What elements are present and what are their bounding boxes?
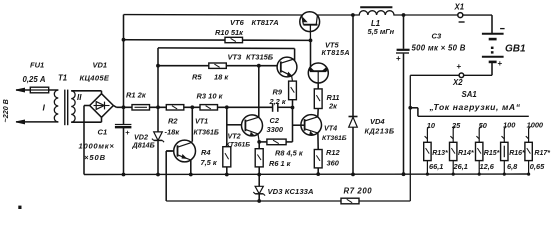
- svg-text:R10 51к: R10 51к: [215, 28, 244, 37]
- svg-text:0,25 А: 0,25 А: [23, 75, 46, 84]
- svg-text:КД213Б: КД213Б: [365, 127, 395, 136]
- svg-text:Т1: Т1: [58, 74, 67, 83]
- svg-text:VT3: VT3: [228, 53, 243, 62]
- svg-text:КТ315Б: КТ315Б: [246, 53, 274, 62]
- svg-text:С3: С3: [432, 32, 442, 41]
- svg-text:5,5 мГн: 5,5 мГн: [368, 27, 395, 36]
- svg-text:R4: R4: [201, 148, 210, 157]
- svg-text:26,1: 26,1: [453, 162, 468, 171]
- svg-text:R15*: R15*: [484, 150, 500, 157]
- svg-text:КТ361Б: КТ361Б: [322, 135, 347, 142]
- svg-text:КЦ405Е: КЦ405Е: [80, 74, 110, 83]
- svg-text:7,5 к: 7,5 к: [201, 158, 218, 167]
- svg-text:3300: 3300: [267, 125, 284, 134]
- svg-text:КТ815А: КТ815А: [322, 48, 350, 57]
- svg-text:25: 25: [451, 121, 461, 130]
- svg-text:R2: R2: [168, 117, 178, 126]
- svg-text:1000мк×: 1000мк×: [79, 142, 115, 151]
- svg-text:50: 50: [479, 121, 488, 130]
- svg-text:R7 200: R7 200: [344, 187, 373, 196]
- svg-text:12,6: 12,6: [480, 162, 495, 171]
- svg-text:+: +: [457, 62, 462, 71]
- svg-text:18 к: 18 к: [214, 73, 229, 82]
- svg-text:R13*: R13*: [432, 150, 448, 157]
- svg-text:66,1: 66,1: [429, 162, 443, 171]
- svg-text:R12: R12: [326, 148, 340, 157]
- svg-text:Д814Б: Д814Б: [132, 141, 155, 150]
- svg-text:SA1: SA1: [462, 90, 477, 99]
- svg-text:КТ361Б: КТ361Б: [194, 130, 219, 137]
- svg-text:X2: X2: [452, 78, 463, 87]
- svg-text:VT1: VT1: [195, 117, 208, 126]
- svg-text:FU1: FU1: [30, 61, 44, 70]
- svg-text:R6 1 к: R6 1 к: [269, 159, 292, 168]
- svg-text:10: 10: [427, 121, 436, 130]
- svg-text:X1: X1: [454, 3, 465, 12]
- svg-text:VD1: VD1: [93, 61, 108, 70]
- svg-text:R16*: R16*: [509, 150, 525, 157]
- svg-text:„Ток нагрузки, мА“: „Ток нагрузки, мА“: [429, 102, 521, 112]
- svg-text:6,8: 6,8: [507, 162, 518, 171]
- svg-text:+: +: [396, 54, 401, 63]
- svg-text:II: II: [77, 93, 82, 102]
- svg-text:КТ361Б: КТ361Б: [226, 141, 251, 148]
- svg-text:VD3 КС133А: VD3 КС133А: [268, 187, 314, 196]
- svg-text:×50В: ×50В: [84, 153, 106, 162]
- svg-text:VT4: VT4: [324, 124, 337, 133]
- svg-text:С1: С1: [98, 128, 108, 137]
- svg-text:GB1: GB1: [505, 44, 526, 55]
- svg-text:+: +: [498, 59, 503, 68]
- svg-text:2,2 к: 2,2 к: [269, 97, 287, 106]
- svg-text:VD4: VD4: [370, 117, 385, 126]
- svg-text:R8 4,5 к: R8 4,5 к: [275, 149, 304, 158]
- svg-text:VT6: VT6: [230, 18, 245, 27]
- svg-text:VT2: VT2: [228, 132, 241, 141]
- svg-text:0,65: 0,65: [530, 162, 545, 171]
- svg-text:R17*: R17*: [534, 150, 550, 157]
- svg-text:R3 10 к: R3 10 к: [197, 92, 224, 101]
- svg-text:КТ817А: КТ817А: [252, 18, 279, 27]
- svg-text:500 мк × 50 В: 500 мк × 50 В: [412, 44, 466, 53]
- svg-text:2к: 2к: [328, 102, 338, 111]
- svg-text:R1 2к: R1 2к: [126, 91, 147, 100]
- svg-text:360: 360: [327, 159, 340, 168]
- svg-text:R9: R9: [273, 88, 283, 97]
- svg-text:+: +: [125, 128, 130, 137]
- svg-text:R14*: R14*: [458, 150, 474, 157]
- svg-text:100: 100: [503, 121, 516, 130]
- svg-text:~220 В: ~220 В: [1, 99, 10, 122]
- svg-text:R5: R5: [192, 73, 202, 82]
- svg-text:1000: 1000: [527, 121, 544, 130]
- svg-text:-18к: -18к: [165, 128, 181, 137]
- svg-text:С2: С2: [270, 116, 280, 125]
